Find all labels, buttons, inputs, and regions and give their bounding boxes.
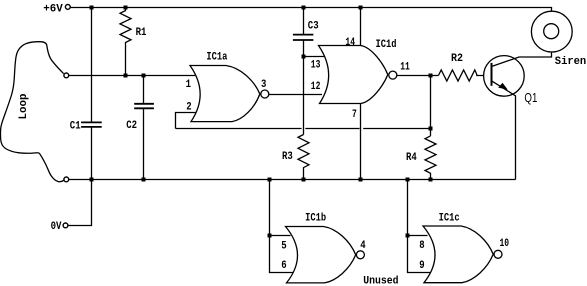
node junction bottom R4 bbox=[429, 178, 433, 182]
svg-text:Unused: Unused bbox=[363, 275, 398, 286]
node junction IC1b pin5 bbox=[268, 234, 272, 238]
wire IC1a output to IC1d pin12 bbox=[269, 94, 322, 96]
node loop upper terminal bbox=[64, 73, 69, 78]
node junction bottom C2 bbox=[142, 178, 146, 182]
siren speaker inner bbox=[544, 24, 559, 39]
svg-text:1: 1 bbox=[186, 79, 192, 91]
svg-text:14: 14 bbox=[345, 37, 355, 49]
wire IC1c input feed bbox=[408, 180, 431, 273]
wire IC1d output to R2 and Q1 base bbox=[397, 75, 438, 77]
capacitor C2 bbox=[143, 76, 145, 104]
svg-text:8: 8 bbox=[419, 240, 425, 252]
svg-text:10: 10 bbox=[500, 238, 510, 250]
wire feedback horizontal mid segment bbox=[305, 128, 359, 130]
node IC1c output bubble bbox=[494, 250, 502, 258]
node junction bottom C1 bbox=[90, 178, 94, 182]
node junction top rail C1 bbox=[90, 6, 94, 10]
svg-text:C1: C1 bbox=[70, 121, 81, 133]
node junction IC1c pin8 bbox=[406, 234, 410, 238]
node junction feedback R4 bbox=[429, 127, 433, 131]
wire IC1d pin13 bbox=[304, 56, 325, 58]
svg-text:Loop: Loop bbox=[18, 93, 30, 119]
svg-text:Q1: Q1 bbox=[524, 91, 537, 105]
op IC1c NOR gate body bbox=[423, 226, 493, 283]
wire 0V to bottom rail bbox=[68, 180, 92, 226]
svg-text:IC1a: IC1a bbox=[206, 52, 227, 64]
wire Q1 collector bbox=[492, 52, 552, 67]
node junction output R4 bbox=[429, 74, 433, 78]
svg-text:2: 2 bbox=[186, 101, 191, 113]
svg-text:R4: R4 bbox=[406, 152, 417, 164]
svg-text:11: 11 bbox=[400, 61, 410, 73]
wire upper node rail to IC1a pin1 bbox=[69, 75, 195, 77]
node IC1b output bubble bbox=[356, 251, 364, 259]
resistor R2 bbox=[438, 70, 491, 81]
siren speaker outer bbox=[531, 11, 572, 52]
node junction upper rail C2 top bbox=[142, 74, 146, 78]
wire Q1 emitter bbox=[492, 81, 516, 180]
svg-text:R1: R1 bbox=[136, 27, 147, 39]
node junction top rail C3 bbox=[302, 6, 306, 10]
node junction bottom pin7 bbox=[359, 178, 363, 182]
svg-text:IC1c: IC1c bbox=[439, 213, 460, 225]
svg-text:+6V: +6V bbox=[43, 4, 63, 16]
wire R4 top lead bbox=[430, 76, 432, 136]
svg-text:12: 12 bbox=[311, 81, 321, 93]
svg-text:3: 3 bbox=[261, 79, 267, 91]
svg-text:7: 7 bbox=[352, 109, 357, 121]
resistor R3 bbox=[298, 135, 309, 180]
wire IC1b input feed bbox=[270, 180, 294, 273]
svg-text:R3: R3 bbox=[282, 151, 293, 163]
svg-text:C3: C3 bbox=[308, 21, 319, 33]
svg-text:6: 6 bbox=[281, 260, 286, 272]
svg-text:4: 4 bbox=[360, 240, 366, 252]
wire feedback horizontal left segment bbox=[176, 128, 302, 130]
loop wavy wire bbox=[0, 42, 64, 182]
node junction bottom IC1b feed bbox=[268, 178, 272, 182]
svg-text:IC1b: IC1b bbox=[305, 213, 326, 225]
capacitor C3 bbox=[303, 8, 305, 35]
svg-text:IC1d: IC1d bbox=[376, 39, 397, 51]
emitter arrow bbox=[498, 83, 508, 90]
node junction top rail pin14 bbox=[359, 6, 363, 10]
node junction bottom IC1c feed bbox=[406, 178, 410, 182]
wire IC1c pin8 bbox=[408, 235, 428, 237]
node loop lower terminal bbox=[64, 177, 69, 182]
op IC1b NOR gate body bbox=[286, 227, 356, 283]
resistor R4 bbox=[425, 136, 436, 180]
node junction top rail R1 bbox=[124, 6, 128, 10]
op IC1a NOR gate body bbox=[190, 66, 260, 122]
wire feedback horizontal right segment bbox=[363, 128, 430, 130]
node IC1a output bubble bbox=[261, 90, 269, 98]
node junction upper rail R1 bottom bbox=[124, 74, 128, 78]
transistor Q1 bbox=[484, 56, 525, 97]
op IC1d NOR gate body bbox=[319, 46, 388, 104]
wire IC1d pin7 bbox=[360, 104, 362, 180]
wire +6V rail top bbox=[70, 8, 551, 12]
svg-text:9: 9 bbox=[419, 260, 424, 272]
svg-text:C2: C2 bbox=[126, 120, 137, 132]
wire bottom rail bbox=[69, 179, 516, 181]
resistor R1 bbox=[120, 8, 131, 76]
svg-text:Siren: Siren bbox=[555, 56, 586, 68]
node IC1d output bubble bbox=[389, 71, 397, 79]
node +6V terminal bbox=[65, 5, 70, 10]
wire IC1b pin5 bbox=[270, 235, 291, 237]
wire IC1d pin14 bbox=[360, 8, 362, 46]
node junction bottom R3 bbox=[302, 178, 306, 182]
node 0V terminal bbox=[63, 223, 68, 228]
svg-text:0V: 0V bbox=[51, 221, 62, 233]
svg-text:13: 13 bbox=[311, 60, 321, 72]
node junction C3 pin13 bbox=[302, 55, 306, 59]
capacitor C1 bbox=[91, 8, 93, 123]
svg-text:R2: R2 bbox=[451, 53, 463, 65]
wire IC1a pin2 bbox=[176, 113, 197, 129]
svg-text:5: 5 bbox=[281, 240, 287, 252]
